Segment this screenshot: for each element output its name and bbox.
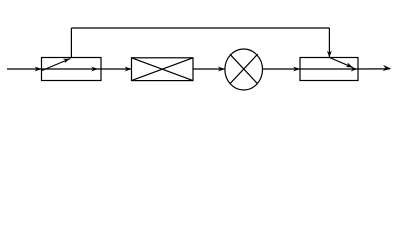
mixer circle [225,49,263,90]
arrowhead into A3 [293,67,300,72]
wire output [358,68,390,70]
wire feedback top [71,27,329,29]
wire A1 to A2 [101,68,132,70]
A3 control diagonal arrow [329,58,352,68]
block A2 (crossed box) [132,58,194,81]
A1 adjustment diagonal arrow [42,59,71,71]
mixer X line 2 [230,54,258,84]
wire A2 to mixer [193,68,225,70]
arrowhead output [383,65,392,72]
arrowhead inside A1 [91,67,98,72]
block A3 (controlled element) box [300,58,358,81]
arrowhead into mixer [218,67,225,72]
block A1 (variable element) box [42,58,102,81]
wire input [7,68,42,70]
wire through A1 [42,68,102,70]
arrowhead into block A1 [35,67,42,72]
arrowhead onto A3 top [327,51,332,58]
arrowhead inside A3 [351,67,358,72]
A2 diagonal 1 [132,58,194,81]
A2 diagonal 2 [132,58,194,81]
wire riser from A1 top [70,28,72,58]
wire drop to A3 [328,28,330,58]
mixer X line 1 [230,54,258,84]
arrowhead into A2 [125,67,132,72]
wire through A3 [300,68,358,70]
wire mixer to A3 [263,68,301,70]
